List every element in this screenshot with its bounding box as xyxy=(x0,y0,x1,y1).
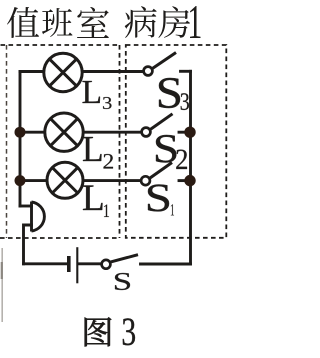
text 病 (bing) xyxy=(125,6,157,38)
label L of L3 xyxy=(82,81,99,103)
wire: S1 fixed contact stub xyxy=(179,179,191,182)
node: junction dot at S1 row on right bus xyxy=(184,175,195,186)
wire: bell bottom terminal + down to battery xyxy=(24,225,32,264)
scan artifact: faint gray smudge at left edge xyxy=(1,248,3,322)
wire: battery to switch S xyxy=(79,262,102,265)
text 图 (tu) xyxy=(85,317,112,346)
label subscript 3 of S3 xyxy=(181,93,189,110)
battery cell: long thin plate (positive) xyxy=(76,247,78,283)
wire: bell top terminal xyxy=(20,205,32,208)
text 房 (fang) xyxy=(158,6,190,38)
label L of L2 xyxy=(83,137,102,161)
switch S (main) xyxy=(102,255,138,269)
label L of L1 xyxy=(83,185,102,210)
label subscript 2 of L2 xyxy=(104,154,113,168)
wire: L1 to S1 xyxy=(84,179,140,182)
wire: L2 row left xyxy=(20,131,44,134)
node: junction dot at L2 row xyxy=(15,127,26,138)
dashed box: duty room (值班室) enclosure xyxy=(0,45,120,238)
label 1 of 病房1 xyxy=(190,6,200,38)
label S of S1 xyxy=(148,185,169,212)
wire: right vertical bus xyxy=(189,71,192,264)
label subscript 3 of L3 xyxy=(103,97,112,109)
switch S3 xyxy=(144,53,176,76)
lamp L3 xyxy=(44,53,82,91)
switch S2 xyxy=(142,114,173,137)
node: junction dot at L1 row xyxy=(15,175,26,186)
wire: S3 fixed contact stub xyxy=(181,70,191,73)
lamp L2 xyxy=(45,113,83,151)
label subscript 2 of S2 xyxy=(176,150,187,169)
label 3 of 图3 xyxy=(123,318,135,345)
label S of S2 xyxy=(156,135,176,163)
wire: left vertical bus xyxy=(19,72,22,207)
text 值 (zhi) xyxy=(7,7,39,38)
label subscript 1 of S1 xyxy=(171,204,174,215)
wire: L1 row left xyxy=(20,179,46,182)
wire: L2 to S2 xyxy=(85,131,141,134)
node: junction dot at S2 row on right bus xyxy=(184,127,195,138)
text 室 (shi) xyxy=(77,7,109,38)
wire: L3 to S3 xyxy=(83,70,142,73)
wire: bottom row to battery xyxy=(24,262,68,265)
electric bell xyxy=(32,202,45,232)
switch S1 xyxy=(141,163,172,186)
label S main switch label xyxy=(115,273,130,290)
lamp L1 xyxy=(47,162,83,198)
label subscript 1 of L1 xyxy=(104,204,109,217)
wire: switch S to right corner xyxy=(141,263,191,266)
dashed box: ward (病房1) enclosure xyxy=(126,45,227,238)
battery cell: short thick plate (negative) xyxy=(67,256,71,272)
text 班 (ban) xyxy=(42,8,73,37)
wire: S2 fixed contact stub xyxy=(179,131,191,134)
wire: L3 row left xyxy=(20,70,43,73)
label S of S3 xyxy=(159,78,180,108)
